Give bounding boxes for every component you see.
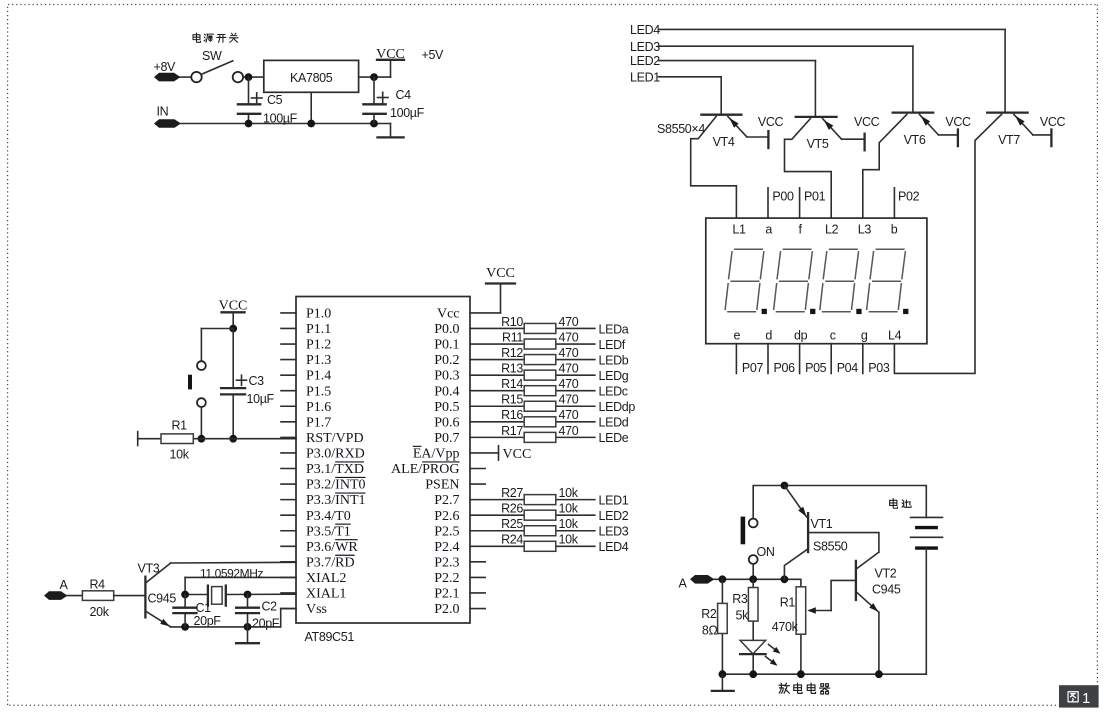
label C4 xyxy=(396,88,412,102)
svg-text:SW: SW xyxy=(202,49,222,63)
svg-text:8Ω: 8Ω xyxy=(702,624,718,638)
pin P3.5/T1 stub xyxy=(281,530,296,532)
net label LEDa xyxy=(599,322,629,336)
pin label P06 xyxy=(774,361,796,375)
label 100µF (C5) xyxy=(263,112,298,126)
svg-text:VT2: VT2 xyxy=(875,567,897,581)
svg-text:VT7: VT7 xyxy=(998,133,1020,147)
svg-text:LEDd: LEDd xyxy=(599,416,629,430)
svg-text:P0.6: P0.6 xyxy=(434,415,459,430)
svg-text:VT1: VT1 xyxy=(811,517,833,531)
net label LED4 xyxy=(599,540,629,554)
power terminal VCC (VT6) xyxy=(957,130,959,147)
svg-text:VT3: VT3 xyxy=(138,562,160,576)
transistor VT1 emitter with arrow xyxy=(784,486,806,518)
transistor VT6 collector xyxy=(863,114,907,218)
svg-text:VT5: VT5 xyxy=(807,137,829,151)
diode VD1 lead to rail xyxy=(752,654,754,674)
label VCC (VT7) xyxy=(1040,115,1066,129)
svg-text:10k: 10k xyxy=(170,448,190,462)
svg-text:P1.7: P1.7 xyxy=(306,415,331,430)
pin P3.6/WR stub xyxy=(281,545,296,547)
junction dot R3 top xyxy=(749,575,757,583)
svg-text:R2: R2 xyxy=(701,607,717,621)
wire SW to KA7805 input xyxy=(243,76,264,78)
label 电源开关 (power switch) xyxy=(193,33,238,42)
wire LED1 to transistor base xyxy=(659,77,722,115)
display bottom pin stub P04 xyxy=(830,344,832,374)
net label LEDd xyxy=(599,416,629,430)
pin label P1.6 xyxy=(306,400,331,415)
junction dot button-RST xyxy=(198,435,206,443)
value 20pF (C2) xyxy=(252,617,280,631)
svg-text:470: 470 xyxy=(559,315,579,329)
svg-text:A: A xyxy=(60,578,69,592)
svg-text:R10: R10 xyxy=(501,315,523,329)
capacitor C3 plates xyxy=(221,388,245,394)
pin label ALE/PROG (overline PROG) xyxy=(391,462,459,477)
display bottom pin stub P07 xyxy=(735,344,737,374)
transistor VT4 emitter with arrow xyxy=(728,117,769,138)
svg-text:g: g xyxy=(861,329,868,343)
label R11 xyxy=(502,330,523,344)
pin P3.1/TXD stub xyxy=(281,468,296,470)
pin label P05 xyxy=(805,361,827,375)
svg-text:R14: R14 xyxy=(501,377,523,391)
svg-text:LED2: LED2 xyxy=(599,509,629,523)
svg-text:EA/Vpp: EA/Vpp xyxy=(413,447,460,462)
label S8550×4 xyxy=(657,122,705,136)
resistor R1 (470k) body xyxy=(796,587,806,634)
junction dot C4 top xyxy=(370,73,378,81)
svg-text:P3.7/RD: P3.7/RD xyxy=(306,555,355,570)
svg-text:P06: P06 xyxy=(774,361,796,375)
wire P0.0 row xyxy=(470,327,595,329)
pin P1.3 stub xyxy=(281,359,296,361)
label C2 xyxy=(262,600,278,614)
junction dot crystal left xyxy=(181,591,189,599)
svg-text:R17: R17 xyxy=(501,424,523,438)
label +8V xyxy=(154,60,177,74)
svg-text:R3: R3 xyxy=(732,592,748,606)
display pad label L4 (bottom) xyxy=(888,329,902,343)
wire P2.7 row xyxy=(470,499,595,501)
svg-text:1: 1 xyxy=(1082,690,1090,707)
pin label P2.1 xyxy=(434,587,459,602)
svg-text:KA7805: KA7805 xyxy=(290,71,333,85)
value 5k xyxy=(735,609,749,623)
svg-text:470: 470 xyxy=(559,346,579,360)
svg-text:VCC: VCC xyxy=(758,115,784,129)
svg-text:P0.1: P0.1 xyxy=(434,338,459,353)
svg-text:c: c xyxy=(830,329,836,343)
svg-text:P1.4: P1.4 xyxy=(306,369,331,384)
wire ON button to A rail xyxy=(752,564,754,579)
push-button ON actuator xyxy=(741,517,746,545)
push-button S1 top contact xyxy=(197,361,206,370)
svg-text:10k: 10k xyxy=(559,486,579,500)
pin label P3.0/RXD xyxy=(306,447,365,462)
svg-text:10k: 10k xyxy=(559,502,579,516)
net label LED4 (driver) xyxy=(630,23,660,37)
value 8Ω xyxy=(702,624,718,638)
pin ALE/PROG stub xyxy=(470,468,485,470)
resistor R1 (10k) body xyxy=(161,434,193,444)
switch SW lever xyxy=(201,61,233,75)
wire P0.6 row xyxy=(470,421,595,423)
svg-text:a: a xyxy=(765,223,772,237)
pin XIAL1 stub xyxy=(281,592,296,594)
pin label XIAL1 xyxy=(306,587,346,602)
wire button to RST xyxy=(200,407,202,439)
transistor VT5 base bar xyxy=(796,116,837,118)
regulator U KA7805 body xyxy=(264,60,359,92)
ground symbol (power supply) xyxy=(378,124,404,138)
wire discharge bottom rail xyxy=(722,673,926,675)
net label LEDg xyxy=(599,369,629,383)
svg-text:20pF: 20pF xyxy=(194,614,222,628)
svg-text:VCC: VCC xyxy=(945,115,971,129)
svg-text:470: 470 xyxy=(559,362,579,376)
svg-text:AT89C51: AT89C51 xyxy=(305,630,355,644)
transistor VT4 collector xyxy=(691,117,737,219)
svg-text:C3: C3 xyxy=(249,374,265,388)
pin label P03 xyxy=(868,361,890,375)
pin P3.2/INT0 stub xyxy=(281,483,296,485)
pin label P1.1 xyxy=(306,322,331,337)
wire Vcc pin to VCC riser xyxy=(470,312,501,314)
junction dot reset VCC node xyxy=(229,325,237,333)
capacitor C4 plates xyxy=(363,104,385,114)
svg-text:470: 470 xyxy=(559,408,579,422)
wire P2.4 row xyxy=(470,545,595,547)
push-button ON bottom contact xyxy=(749,555,758,564)
svg-text:P2.0: P2.0 xyxy=(434,602,459,617)
svg-text:R1: R1 xyxy=(172,419,188,433)
svg-text:L1: L1 xyxy=(732,223,746,237)
pin P1.2 stub xyxy=(281,343,296,345)
svg-text:R27: R27 xyxy=(501,486,523,500)
svg-text:S8550×4: S8550×4 xyxy=(657,122,705,136)
wire P2.5 row xyxy=(470,530,595,532)
wire A rail xyxy=(714,579,801,587)
pin label P1.4 xyxy=(306,369,331,384)
label R3 xyxy=(732,592,748,606)
label VT5 xyxy=(807,137,829,151)
svg-text:LED2: LED2 xyxy=(630,54,660,68)
label 10µF xyxy=(247,392,275,406)
label R1 (470k) xyxy=(780,596,796,610)
label R26 xyxy=(501,502,523,516)
svg-text:P2.2: P2.2 xyxy=(434,571,459,586)
transistor VT3 base bar xyxy=(144,577,146,618)
label R27 xyxy=(501,486,523,500)
value 470 (R10) xyxy=(559,315,579,329)
svg-text:P0.7: P0.7 xyxy=(434,431,459,446)
capacitor C5 plus sign xyxy=(252,93,263,104)
display pad label f xyxy=(798,223,802,237)
pin EA/Vpp stub wire xyxy=(470,452,499,454)
display digit 2 segments xyxy=(774,249,813,311)
transistor VT3 collector xyxy=(146,562,296,582)
junction dot R2 top xyxy=(719,575,727,583)
value 10k (R25) xyxy=(559,517,579,531)
svg-text:P1.1: P1.1 xyxy=(306,322,331,337)
label AT89C51 xyxy=(305,630,355,644)
svg-text:d: d xyxy=(765,329,772,343)
net label LED1 (driver) xyxy=(630,70,660,84)
battery bottom lead xyxy=(925,548,927,674)
svg-text:20pF: 20pF xyxy=(252,617,280,631)
wire KA7805 GND pin xyxy=(310,92,312,123)
svg-text:VCC: VCC xyxy=(376,47,405,62)
svg-text:A: A xyxy=(679,577,688,591)
transistor VT1 collector xyxy=(784,549,808,580)
pin label P3.7/RD xyxy=(306,555,355,570)
pin label P0.3 xyxy=(434,369,459,384)
svg-text:R15: R15 xyxy=(501,393,523,407)
wire XIAL2 connection xyxy=(185,577,296,594)
value 470 (R14) xyxy=(559,377,579,391)
wire discharge top rail xyxy=(753,486,926,519)
svg-text:P1.3: P1.3 xyxy=(306,353,331,368)
value 470 (R16) xyxy=(559,408,579,422)
label R2 xyxy=(701,607,717,621)
svg-text:P3.4/T0: P3.4/T0 xyxy=(306,509,351,524)
resistor R13 body xyxy=(524,370,556,380)
capacitor C3 plus sign xyxy=(237,375,247,385)
pin label XIAL2 xyxy=(306,571,346,586)
pin P2.3 stub xyxy=(470,561,485,563)
junction dot KA7805 gnd xyxy=(307,120,315,128)
svg-text:470k: 470k xyxy=(772,620,799,634)
transistor VT3 emitter with arrow xyxy=(146,612,171,627)
resistor R24 body xyxy=(524,541,556,551)
transistor VT2 base bar xyxy=(855,561,857,600)
resistor R2 leads xyxy=(721,579,723,674)
pin label P0.6 xyxy=(434,415,459,430)
pin Vss stub xyxy=(281,608,296,610)
switch SW contact circle right xyxy=(233,72,243,82)
wire VCC node to reset button xyxy=(201,329,233,362)
wire L4 to VT7 collector (drawn with VT7 collector) xyxy=(0,0,1,1)
svg-text:P1.5: P1.5 xyxy=(306,384,331,399)
pin label P0.5 xyxy=(434,400,459,415)
display pad label a xyxy=(765,223,772,237)
capacitor C2 leads xyxy=(247,595,249,627)
label A (crystal side) xyxy=(60,578,69,592)
pin label P2.7 xyxy=(434,493,459,508)
value 470 (R11) xyxy=(559,330,579,344)
capacitor C5 plates xyxy=(238,104,260,114)
value 470 (R17) xyxy=(559,424,579,438)
svg-text:C4: C4 xyxy=(396,88,412,102)
svg-text:P2.6: P2.6 xyxy=(434,509,459,524)
net label LEDe xyxy=(599,431,629,445)
svg-text:LEDdp: LEDdp xyxy=(599,400,636,414)
svg-text:10µF: 10µF xyxy=(247,392,275,406)
label VT2 xyxy=(875,567,897,581)
svg-text:R25: R25 xyxy=(501,517,523,531)
junction dot C2 bottom xyxy=(244,623,252,631)
transistor VT2 emitter with arrow xyxy=(857,593,879,675)
wire KA7805 output to VCC xyxy=(359,76,391,78)
display decimal point dp3 xyxy=(856,309,861,314)
svg-text:P04: P04 xyxy=(837,361,859,375)
display bottom pin stub P05 xyxy=(799,344,801,374)
label R13 xyxy=(501,362,523,376)
pin P1.4 stub xyxy=(281,374,296,376)
svg-text:P07: P07 xyxy=(742,361,764,375)
pin P2.2 stub xyxy=(470,576,485,578)
svg-text:C5: C5 xyxy=(267,93,283,107)
pin P1.1 stub xyxy=(281,327,296,329)
svg-text:RST/VPD: RST/VPD xyxy=(306,431,364,446)
svg-text:P2.7: P2.7 xyxy=(434,493,459,508)
display top pin b stub xyxy=(893,188,895,218)
label R17 xyxy=(501,424,523,438)
wiper arrow into R1 xyxy=(807,607,831,614)
transistor VT2 base wire to R1 wiper xyxy=(831,580,856,610)
label VCC (VT4) xyxy=(758,115,784,129)
svg-text:R11: R11 xyxy=(502,330,523,344)
display decimal point dp2 xyxy=(810,309,815,314)
svg-text:P05: P05 xyxy=(805,361,827,375)
transistor VT6 emitter with arrow xyxy=(919,114,957,134)
label R4 xyxy=(90,577,106,591)
pin label P0.7 xyxy=(434,431,459,446)
transistor VT7 collector xyxy=(894,114,1001,373)
display pad label d (bottom) xyxy=(765,329,772,343)
junction dot bottom rail diode xyxy=(749,670,757,678)
resistor R3 body xyxy=(748,588,758,622)
terminal bar RST wire left end xyxy=(137,432,139,446)
transistor VT5 collector xyxy=(785,119,832,218)
svg-text:5k: 5k xyxy=(735,609,749,623)
svg-text:100µF: 100µF xyxy=(390,106,425,120)
resistor R1 (470k) leads xyxy=(800,634,802,674)
value 10k (R27) xyxy=(559,486,579,500)
svg-text:P02: P02 xyxy=(898,190,920,204)
value 20pF (C1) xyxy=(194,614,222,628)
svg-text:S8550: S8550 xyxy=(813,540,848,554)
push-button ON top contact xyxy=(749,519,758,528)
junction dot C4 bottom xyxy=(370,120,378,128)
svg-text:P2.3: P2.3 xyxy=(434,555,459,570)
display digit 3 segments xyxy=(820,249,859,311)
pin label Vcc xyxy=(437,307,460,322)
svg-text:dp: dp xyxy=(794,329,808,343)
svg-text:C1: C1 xyxy=(196,601,212,615)
svg-text:R13: R13 xyxy=(501,362,523,376)
pin label P2.6 xyxy=(434,509,459,524)
junction dot C5 bottom xyxy=(245,120,253,128)
svg-text:LED3: LED3 xyxy=(630,40,660,54)
svg-text:10k: 10k xyxy=(559,517,579,531)
svg-text:P3.2/INT0: P3.2/INT0 xyxy=(306,478,366,493)
transistor VT7 emitter with arrow xyxy=(1014,114,1052,134)
svg-text:R12: R12 xyxy=(501,346,523,360)
power terminal VCC (VT7) xyxy=(1050,130,1052,147)
terminal bar VCC at EA/Vpp xyxy=(498,446,500,460)
label C945 (VT2) xyxy=(872,583,901,597)
capacitor C5 leads xyxy=(248,77,250,123)
svg-text:C945: C945 xyxy=(872,583,901,597)
pin label P02 xyxy=(898,190,920,204)
svg-text:Vss: Vss xyxy=(306,602,327,617)
display top pin f stub xyxy=(799,188,801,218)
pin P3.0/RXD stub xyxy=(281,452,296,454)
wire P0.3 row xyxy=(470,374,595,376)
svg-text:LED1: LED1 xyxy=(630,70,660,84)
svg-text:11.0592MHz: 11.0592MHz xyxy=(200,567,264,581)
power symbol VCC +5V (top left) xyxy=(376,47,405,77)
pin label P0.4 xyxy=(434,384,459,399)
push-button S1 actuator xyxy=(188,375,192,390)
wire P0.1 row xyxy=(470,343,595,345)
pin label P2.4 xyxy=(434,540,459,555)
label +5V xyxy=(422,48,445,62)
svg-text:P1.0: P1.0 xyxy=(306,307,331,322)
value 10k (R24) xyxy=(559,533,579,547)
resistor R11 body xyxy=(524,339,556,349)
ground symbol under C2 xyxy=(236,627,259,643)
display pad label g (bottom) xyxy=(861,329,868,343)
pin label P3.6/WR xyxy=(306,540,358,555)
resistor R17 body xyxy=(524,432,556,442)
pin label P3.1/TXD xyxy=(306,462,364,477)
pin label P3.3/INT1 xyxy=(306,493,366,508)
display pad label L3 xyxy=(858,223,872,237)
value 470k xyxy=(772,620,799,634)
display decimal point dp1 xyxy=(762,309,767,314)
svg-text:LED4: LED4 xyxy=(599,540,629,554)
junction dot bottom rail R1 xyxy=(797,670,805,678)
wire XIAL1 / crystal row xyxy=(185,593,296,595)
pin label P2.0 xyxy=(434,602,459,617)
display DS1 body (4-digit 7-segment) xyxy=(706,218,927,344)
crystal X1 plates xyxy=(208,586,226,606)
value 11.0592MHz xyxy=(200,567,264,581)
svg-text:P3.3/INT1: P3.3/INT1 xyxy=(306,493,366,508)
transistor VT4 base bar xyxy=(701,114,741,116)
capacitor C1 plates xyxy=(173,608,196,613)
transistor VT7 base bar xyxy=(987,111,1027,113)
pin XIAL2 stub xyxy=(281,576,296,578)
wire LED2 to transistor base xyxy=(659,61,816,117)
resistor R2 body xyxy=(718,603,728,633)
display pad label c (bottom) xyxy=(830,329,836,343)
svg-text:LEDg: LEDg xyxy=(599,369,629,383)
resistor R16 body xyxy=(524,417,556,427)
capacitor C4 plus sign xyxy=(378,92,389,103)
display pad label dp (bottom) xyxy=(794,329,808,343)
diode VD1 cathode bar xyxy=(740,653,766,655)
svg-text:470: 470 xyxy=(559,330,579,344)
value 20k xyxy=(90,605,110,619)
resistor R15 body xyxy=(524,401,556,411)
node A arrow (discharge) xyxy=(690,575,714,584)
label R14 xyxy=(501,377,523,391)
pin label P2.2 xyxy=(434,571,459,586)
svg-text:R26: R26 xyxy=(501,502,523,516)
pin P1.6 stub xyxy=(281,405,296,407)
pin label P1.0 xyxy=(306,307,331,322)
net label LED1 xyxy=(599,493,629,507)
svg-text:IN: IN xyxy=(157,105,169,119)
svg-text:P2.4: P2.4 xyxy=(434,540,459,555)
svg-text:LED4: LED4 xyxy=(630,23,660,37)
